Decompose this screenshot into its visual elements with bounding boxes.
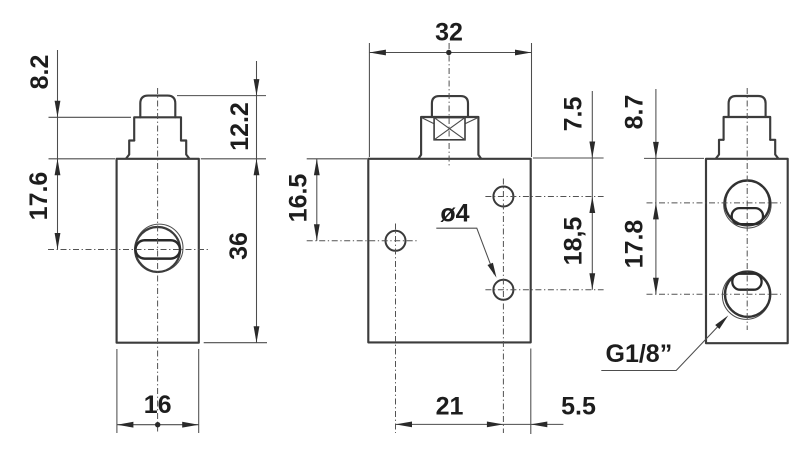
svg-text:8.2: 8.2: [26, 55, 54, 90]
dimension line 16: [117, 424, 199, 426]
left view body: [117, 159, 199, 343]
extension line middle body right bottom: [530, 349, 532, 435]
svg-text:17.6: 17.6: [25, 172, 53, 221]
middle view top right hole: [493, 187, 513, 207]
svg-text:36: 36: [225, 232, 253, 260]
right view plunger cap: [729, 96, 766, 117]
dimension line 8.2 and 17.6: [57, 50, 59, 250]
middle view plunger cap: [432, 96, 468, 117]
svg-text:32: 32: [435, 19, 463, 47]
leader line for diameter 4: [436, 228, 494, 274]
extension line body bottom right: [204, 342, 267, 344]
middle view bottom right hole horizontal centerline: [485, 289, 603, 291]
extension line body top left: [49, 158, 116, 160]
left view vertical centerline: [157, 88, 159, 433]
right view plunger step 2: [724, 117, 771, 140]
middle view plunger collar: [419, 117, 481, 158]
middle view right holes vertical centerline: [502, 179, 504, 434]
middle view top right hole horizontal centerline: [485, 196, 603, 198]
right view vertical centerline: [746, 88, 748, 330]
svg-text:16: 16: [144, 391, 172, 419]
svg-text:17.8: 17.8: [621, 220, 649, 269]
dimension line 21 and 5.5: [396, 423, 564, 425]
svg-text:G1/8”: G1/8”: [606, 340, 673, 368]
middle view collar chamfer right: [465, 118, 478, 124]
middle view left hole horizontal centerline: [307, 240, 417, 242]
extension line body top right: [201, 158, 266, 160]
svg-text:ø4: ø4: [440, 200, 469, 228]
right view bottom port thin circle: [722, 272, 770, 320]
right view body: [706, 159, 788, 343]
middle view left hole: [386, 231, 406, 251]
dimension line 7.5 and 18,5: [591, 91, 593, 290]
left view screw horizontal centerline: [48, 249, 209, 251]
left view screw slot: [136, 240, 181, 258]
leader line for G1/8: [601, 319, 725, 371]
extension line middle body left top: [368, 43, 370, 157]
middle view left hole vertical centerline: [395, 224, 397, 434]
right view bottom port horizontal centerline: [647, 293, 782, 295]
right view top port: [725, 181, 770, 226]
middle view collar chamfer left: [422, 118, 435, 124]
middle view body: [368, 159, 530, 343]
svg-text:21: 21: [436, 393, 464, 421]
middle view plunger centerline: [448, 43, 450, 167]
svg-text:5.5: 5.5: [561, 393, 596, 421]
middle view crossed box: [434, 118, 465, 140]
svg-text:12.2: 12.2: [226, 102, 254, 151]
extension line body left bottom: [116, 349, 118, 433]
middle view bottom right hole: [493, 280, 513, 300]
extension line cap top right: [177, 95, 266, 97]
left view screw head: [135, 227, 180, 272]
extension line cap base left: [49, 116, 132, 118]
dimension line 32: [369, 52, 531, 54]
extension line body right bottom: [198, 349, 200, 433]
left view plunger cap: [140, 96, 175, 118]
extension line middle body right top: [531, 43, 533, 157]
left view screw head thin circle: [135, 224, 183, 272]
dimension line 16.5: [316, 159, 318, 241]
right view bottom port: [725, 272, 770, 317]
right view top port horizontal centerline: [647, 202, 782, 204]
right view plunger step 3: [716, 140, 778, 159]
extension line middle body top left: [307, 158, 367, 160]
extension line right body top: [644, 157, 704, 159]
right view top port thin circle: [724, 181, 771, 228]
svg-text:8.7: 8.7: [621, 95, 649, 130]
svg-text:7.5: 7.5: [560, 97, 588, 132]
svg-text:16.5: 16.5: [285, 174, 313, 223]
right view bottom port seat: [732, 274, 761, 290]
extension line middle body top rightside: [533, 157, 604, 159]
left view plunger step 2: [134, 117, 181, 140]
svg-text:18,5: 18,5: [560, 217, 588, 266]
dimension line 12.2 and 36: [256, 61, 258, 343]
right view top port seat: [732, 208, 763, 224]
dimension line 8.7 and 17.8: [655, 89, 657, 294]
left view plunger step 3: [126, 141, 189, 159]
